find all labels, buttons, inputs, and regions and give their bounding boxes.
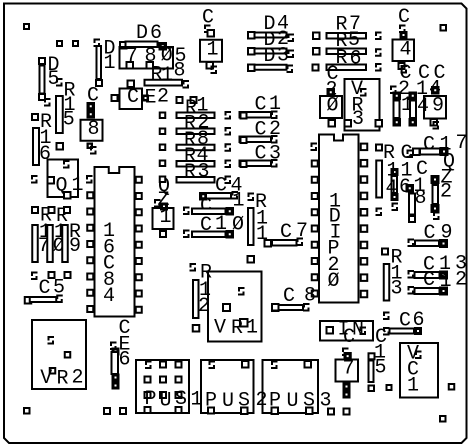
capacitor C1 (mid) xyxy=(200,190,245,219)
capacitor C9 xyxy=(424,222,453,246)
svg-text:1: 1 xyxy=(246,317,258,340)
capacitor C6 xyxy=(399,309,425,333)
resistor R11 xyxy=(248,193,255,202)
diode D5 xyxy=(38,57,46,65)
capacitor C1 (top) xyxy=(202,7,214,30)
pad bottom-left xyxy=(23,407,31,415)
diode D4 body xyxy=(252,65,287,70)
capacitor C13 xyxy=(423,253,467,277)
trimmer VR1 xyxy=(208,272,262,342)
capacitor C7 xyxy=(280,220,308,244)
pad right of VR1 xyxy=(271,303,280,312)
svg-text:R: R xyxy=(231,317,243,340)
resistor R17 xyxy=(31,206,39,214)
trimmer VR3 xyxy=(345,79,380,131)
mounting pad top-left xyxy=(23,23,30,30)
capacitor C12 xyxy=(423,269,467,294)
capacitor VC1 xyxy=(400,343,438,398)
pushbutton PUS1 xyxy=(136,360,189,413)
pad CE6 bottom 2 xyxy=(119,407,127,415)
IC7 box xyxy=(342,348,349,357)
svg-text:1: 1 xyxy=(160,206,172,229)
svg-text:1: 1 xyxy=(72,174,84,197)
pushbutton PUS3 xyxy=(263,360,319,413)
svg-text:Ø: Ø xyxy=(327,94,339,117)
capacitor C14 xyxy=(416,62,430,118)
svg-text:V: V xyxy=(40,367,52,390)
pad A2 xyxy=(72,40,79,47)
pad right of VC1 xyxy=(448,383,456,391)
resistor R16 xyxy=(31,113,39,121)
svg-text:U: U xyxy=(222,390,234,413)
capacitor C2 (right) xyxy=(255,118,282,142)
regulator 7805 xyxy=(120,47,174,69)
pad B1 xyxy=(327,408,335,416)
transistor Q1 xyxy=(48,160,79,198)
svg-text:P: P xyxy=(205,390,217,413)
svg-text:5: 5 xyxy=(63,109,75,132)
svg-text:S: S xyxy=(238,390,250,413)
capacitor C16 xyxy=(399,142,413,199)
svg-text:1: 1 xyxy=(233,190,245,213)
svg-text:1: 1 xyxy=(407,375,419,398)
svg-text:N: N xyxy=(352,319,364,342)
pad top-right xyxy=(440,24,448,32)
capacitor C20 xyxy=(326,63,339,102)
transistor Q2 xyxy=(440,151,455,204)
diode D4 label xyxy=(264,13,290,37)
resistor R6 xyxy=(327,49,367,55)
svg-text:C: C xyxy=(127,86,139,109)
resistor R9 xyxy=(63,206,71,214)
trimmer VR2 xyxy=(32,320,86,389)
pad B2 xyxy=(343,408,351,416)
capacitor C8 (electrolytic) xyxy=(87,85,99,108)
capacitor C4 (mid) xyxy=(215,175,243,198)
capacitor C18 xyxy=(414,158,429,210)
diode D6 xyxy=(136,22,162,45)
diode D2 xyxy=(252,33,287,38)
svg-text:U: U xyxy=(160,390,172,413)
pushbutton PUS2 xyxy=(201,360,254,413)
resistor R13 xyxy=(381,248,389,256)
svg-text:4: 4 xyxy=(103,285,115,308)
svg-text:3: 3 xyxy=(198,161,210,184)
svg-text:6: 6 xyxy=(119,349,131,372)
pad CE6 bottom 1 xyxy=(103,407,111,415)
capacitor C19 xyxy=(429,62,446,101)
resistor R12 xyxy=(190,263,197,272)
svg-text:7: 7 xyxy=(343,358,355,381)
pad A1 xyxy=(56,40,63,47)
resistor R7 label xyxy=(336,13,362,37)
svg-text:Ø: Ø xyxy=(328,270,340,293)
crystal QZ1 xyxy=(158,175,171,212)
svg-text:U: U xyxy=(287,390,299,413)
svg-text:1: 1 xyxy=(104,52,116,75)
capacitor C8 (bottom) xyxy=(283,285,316,309)
capacitor C5 xyxy=(39,277,66,301)
svg-text:4: 4 xyxy=(400,39,412,62)
svg-text:S: S xyxy=(303,390,315,413)
svg-text:V: V xyxy=(214,317,226,340)
svg-text:3: 3 xyxy=(391,278,403,301)
resistor R5 xyxy=(327,33,367,39)
svg-text:R: R xyxy=(184,161,196,184)
IC DIP20 xyxy=(319,135,359,303)
svg-text:6: 6 xyxy=(39,143,51,166)
svg-text:7: 7 xyxy=(456,132,468,155)
svg-text:1: 1 xyxy=(207,39,219,62)
resistor R15 xyxy=(63,80,76,132)
resistor R10 xyxy=(48,206,56,214)
diode D3 xyxy=(252,49,287,54)
pad C15 side xyxy=(386,384,393,391)
capacitor C21 xyxy=(390,86,397,95)
resistor R18 xyxy=(151,60,186,88)
capacitor C10 xyxy=(200,213,244,237)
resistor array R1 R2 R8 R4 R3 xyxy=(176,96,184,104)
svg-text:8: 8 xyxy=(88,118,100,141)
svg-text:9: 9 xyxy=(432,95,444,118)
IC 16C84 xyxy=(95,167,135,317)
resistor R14 xyxy=(383,142,399,200)
svg-text:2: 2 xyxy=(72,367,84,390)
capacitor CE6 xyxy=(119,317,131,372)
svg-text:8: 8 xyxy=(415,187,427,210)
capacitor C4 (top right) xyxy=(398,6,410,29)
svg-text:R: R xyxy=(57,368,69,391)
svg-text:2: 2 xyxy=(455,269,467,292)
capacitor C17 xyxy=(423,132,468,157)
svg-text:2: 2 xyxy=(157,86,169,109)
svg-text:3: 3 xyxy=(352,108,364,131)
resistor R7 body xyxy=(327,65,367,71)
svg-text:5: 5 xyxy=(375,357,387,380)
svg-text:4: 4 xyxy=(386,177,398,200)
diode D1 xyxy=(94,39,101,48)
svg-text:P: P xyxy=(269,390,281,413)
capacitor CE2 xyxy=(127,80,136,89)
svg-text:9: 9 xyxy=(69,235,81,258)
svg-text:2: 2 xyxy=(440,181,452,204)
pad below VC1 xyxy=(439,415,447,423)
capacitor C15 xyxy=(374,326,387,380)
connector IN xyxy=(320,321,373,341)
capacitor C3 (right) xyxy=(255,143,282,166)
capacitor C1 (right) xyxy=(255,93,282,117)
